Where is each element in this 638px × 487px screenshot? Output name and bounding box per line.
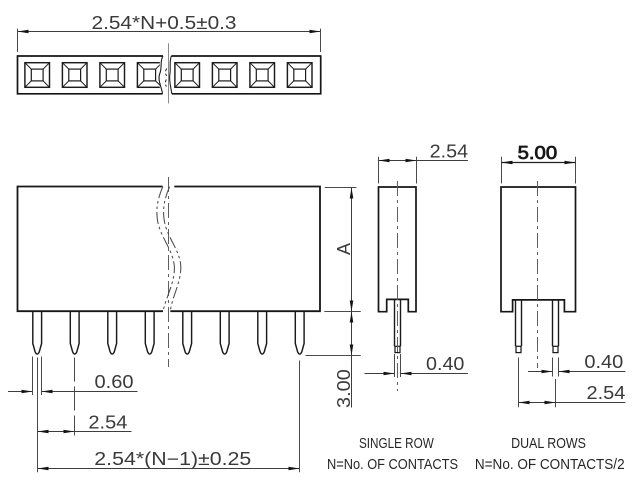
single row pin: right side bbox=[400, 299, 402, 346]
top view contact hole 3 (nested squares) bbox=[100, 63, 125, 88]
pin 2 axis extension line (dashed) bbox=[74, 358, 76, 436]
single row pin: left side bbox=[394, 299, 396, 346]
front view pin 5 bbox=[183, 312, 192, 354]
top view contact hole 2 (nested squares) bbox=[62, 63, 87, 88]
front view pin 6 bbox=[220, 312, 229, 354]
dimension 5.00: left extension bbox=[501, 157, 503, 184]
dimension 2.54*N+0.5±0.3: left extension line bbox=[17, 29, 19, 52]
dimension A: top arrow bbox=[350, 188, 354, 199]
dimension 2.54 (single row width): right extension bbox=[416, 157, 418, 184]
dimension 2.54 (single row width): dimension line bbox=[379, 160, 468, 162]
top view contact hole 5 (nested squares) bbox=[175, 63, 200, 88]
dimension 0.40 (single row pin): left line+arrow bbox=[365, 373, 395, 375]
front view pin 7 bbox=[258, 312, 267, 354]
front view pin 4 bbox=[145, 312, 154, 354]
dimension A: bottom arrow bbox=[350, 301, 354, 312]
dual rows right pin bbox=[552, 300, 554, 346]
dimension 0.60: left line+arrow bbox=[8, 391, 33, 393]
front view: body outline (right portion) bbox=[170, 187, 320, 312]
single row center line (dash-dot) bbox=[397, 181, 399, 391]
top view contact hole 4 (nested squares) bbox=[137, 63, 162, 88]
svg-text:0.60: 0.60 bbox=[95, 372, 134, 392]
top view contact hole 7 (nested squares) bbox=[250, 63, 275, 88]
dimension 2.54 (pitch): left arrow bbox=[38, 430, 49, 434]
dimension 3.00: top arrow bbox=[350, 312, 354, 323]
front view break: left S-curve (phantom line) bbox=[157, 187, 174, 311]
svg-text:N=No. OF CONTACTS/2: N=No. OF CONTACTS/2 bbox=[475, 456, 625, 473]
svg-text:SINGLE ROW: SINGLE ROW bbox=[359, 435, 434, 452]
top view break: white-out region bbox=[160, 57, 171, 92]
top view: connector body outline (left portion) bbox=[18, 56, 164, 94]
dimension 0.60: right line+arrow bbox=[42, 391, 138, 393]
dual rows side view: body outline bbox=[501, 187, 576, 312]
dimension 2.54*(N-1)±0.25: right arrow bbox=[289, 467, 300, 471]
pin 8 axis extension line bbox=[299, 361, 301, 473]
dimension 3.00: bottom arrow bbox=[350, 345, 354, 356]
dimension 0.40 (dual rows pin): right edge extension bbox=[558, 358, 560, 377]
top view break: right edge curve bbox=[170, 56, 172, 94]
front view pin 2 bbox=[70, 312, 79, 354]
svg-text:A: A bbox=[334, 243, 354, 255]
svg-text:2.54: 2.54 bbox=[430, 141, 468, 161]
single row pin: tip box bbox=[395, 346, 400, 352]
dimension 0.40 (single row pin): right line+arrow bbox=[401, 373, 468, 375]
dimension 0.40 (dual rows pin): right line+arrow bbox=[559, 371, 626, 373]
svg-text:0.40: 0.40 bbox=[584, 352, 623, 372]
svg-text:DUAL ROWS: DUAL ROWS bbox=[511, 435, 586, 452]
dual rows right pin axis extension line bbox=[555, 379, 557, 407]
top view break: clipped contact arc marks bbox=[165, 69, 167, 87]
dimension 0.60: right edge extension line of pin 1 bbox=[41, 357, 43, 396]
top view contact hole 1 (nested squares) bbox=[25, 63, 50, 88]
front view: body outline (left portion) bbox=[18, 187, 164, 312]
dimension A: top extension line bbox=[325, 187, 357, 189]
dimension 2.54 (pitch): dimension line bbox=[38, 431, 132, 433]
top view: connector body outline (right portion) bbox=[171, 56, 320, 94]
svg-text:2.54: 2.54 bbox=[587, 383, 626, 403]
dimension 2.54*(N-1)±0.25: left arrow bbox=[38, 467, 49, 471]
dimension 2.54*N+0.5±0.3: dimension line bbox=[18, 31, 321, 33]
dimension 0.40 (single row pin): right edge extension bbox=[400, 354, 402, 377]
svg-text:5.00: 5.00 bbox=[518, 143, 558, 163]
front view pin 8 bbox=[295, 312, 304, 354]
pin 1 axis extension line bbox=[37, 358, 39, 473]
svg-text:0.40: 0.40 bbox=[426, 354, 464, 374]
dimension 3.00: dimension line bbox=[351, 312, 353, 408]
dimension A: bottom extension line (shared with 3.00) bbox=[324, 311, 361, 313]
svg-text:3.00: 3.00 bbox=[334, 369, 354, 408]
dimension 2.54*N+0.5±0.3: right extension line bbox=[320, 29, 322, 52]
dimension 0.40 (dual rows pin): left edge extension bbox=[552, 358, 554, 377]
svg-text:2.54*N+0.5±0.3: 2.54*N+0.5±0.3 bbox=[92, 13, 237, 33]
top view break: vertical break line bbox=[168, 43, 170, 103]
dimension 3.00: pin-tip extension line bbox=[306, 355, 361, 357]
top view contact hole 6 (nested squares) bbox=[212, 63, 237, 88]
top view contact hole 8 (nested squares) bbox=[287, 63, 312, 88]
dimension 5.00: right extension bbox=[575, 157, 577, 184]
dual rows left pin bbox=[515, 300, 517, 346]
single row side view: body outline bbox=[379, 187, 417, 312]
front view pin 1 bbox=[33, 312, 42, 354]
front view pin 3 bbox=[108, 312, 117, 354]
dimension A: dimension line bbox=[351, 188, 353, 312]
front view break: right S-curve (phantom line) bbox=[164, 187, 181, 311]
front view: center line (dash-dot) bbox=[168, 177, 170, 367]
dimension 0.40 (single row pin): left edge extension bbox=[394, 354, 396, 377]
dimension 2.54*N+0.5±0.3: right arrow bbox=[310, 30, 321, 34]
dimension 2.54*N+0.5±0.3: left arrow bbox=[18, 30, 29, 34]
dual rows center line (dash-dot) bbox=[537, 181, 539, 368]
dimension 2.54 (single row width): left extension bbox=[378, 157, 380, 184]
dimension 5.00: dimension line bbox=[502, 162, 576, 164]
svg-text:N=No. OF CONTACTS: N=No. OF CONTACTS bbox=[327, 456, 458, 473]
top view break: left jagged edge bbox=[159, 56, 163, 94]
dimension 2.54*(N-1)±0.25: dimension line bbox=[38, 468, 300, 470]
dual rows left pin axis extension line bbox=[518, 358, 520, 408]
dimension 2.54 (pitch): right arrow bbox=[64, 430, 75, 434]
dimension 0.60: left edge extension line of pin 1 bbox=[32, 357, 34, 396]
svg-text:2.54*(N−1)±0.25: 2.54*(N−1)±0.25 bbox=[94, 449, 251, 469]
dimension 2.54 (dual rows pitch): dimension line bbox=[519, 402, 626, 404]
svg-text:2.54: 2.54 bbox=[88, 412, 127, 432]
dimension 0.40 (dual rows pin): left line+arrow bbox=[528, 371, 553, 373]
